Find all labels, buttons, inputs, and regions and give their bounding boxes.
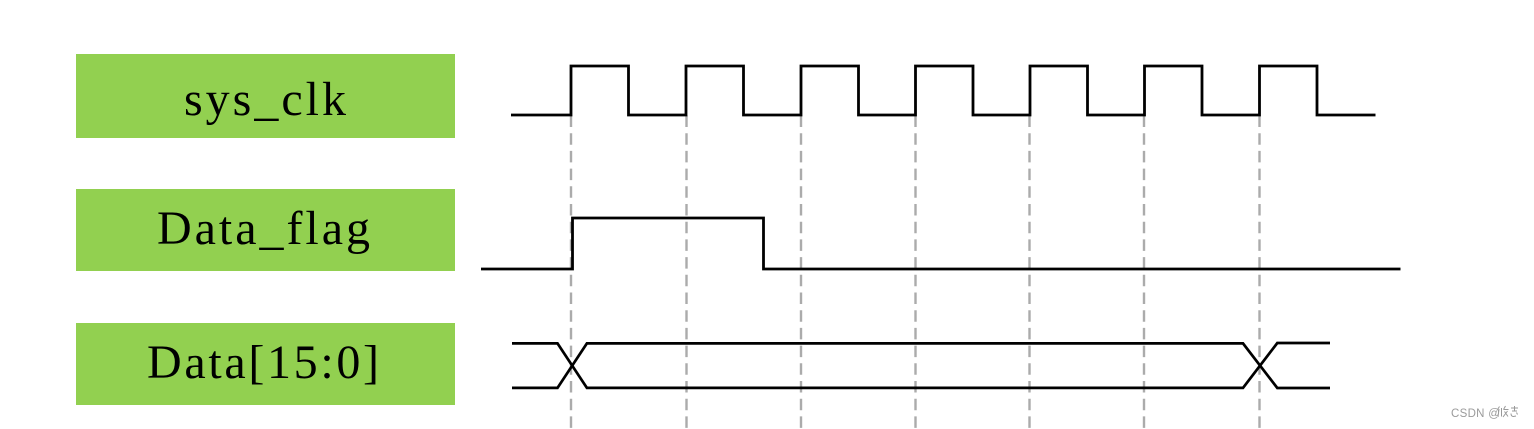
watermark hanzi zhi (1511, 406, 1518, 417)
dashed grid line t7 (1258, 116, 1260, 429)
Data bus bottom-start rail (512, 343, 1330, 388)
label box sys_clk (76, 54, 455, 138)
dashed grid line t5 (1028, 116, 1030, 429)
watermark hanzi you (1498, 406, 1509, 417)
label box Data_flag (76, 189, 455, 271)
dashed grid line t1 (570, 116, 572, 429)
Data_flag waveform (481, 218, 1401, 269)
Data bus top-start rail (512, 343, 1330, 388)
dashed grid line t6 (1143, 116, 1145, 429)
sys_clk waveform (511, 66, 1376, 115)
dashed grid line t4 (914, 116, 916, 429)
svg-text:Data_flag: Data_flag (157, 202, 370, 255)
dashed grid line t3 (800, 116, 802, 429)
svg-text:CSDN @: CSDN @ (1451, 408, 1500, 420)
svg-text:sys_clk: sys_clk (184, 73, 346, 126)
label box Data[15:0] (76, 323, 455, 405)
dashed grid line t2 (685, 116, 687, 429)
